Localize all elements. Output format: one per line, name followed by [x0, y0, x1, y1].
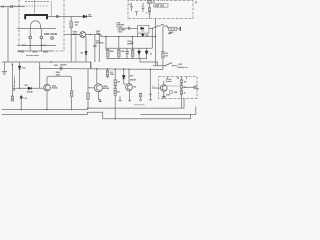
- bus stub x21: [20, 100, 22, 110]
- resistor R601 lead: [149, 3, 151, 7]
- connector circle: [56, 16, 58, 18]
- resistor R521: [107, 50, 110, 57]
- wire to pin: [183, 86, 194, 88]
- svg-text:2W: 2W: [165, 55, 168, 57]
- switch wire: [153, 65, 177, 67]
- transistor V502: [44, 84, 51, 91]
- anode wire: [34, 0, 36, 14]
- diode V506 stem: [123, 69, 125, 75]
- stub x120: [119, 96, 121, 100]
- thermistor S-mark: [161, 24, 167, 26]
- svg-text:1N4148: 1N4148: [27, 90, 33, 93]
- CRT face dashed line A: [25, 1, 50, 3]
- svg-text:4-10: 4-10: [23, 97, 26, 100]
- riser R522: [118, 37, 120, 50]
- diode V509: [83, 15, 86, 18]
- electron gun dome: [31, 21, 41, 29]
- resistor R582: [180, 85, 182, 89]
- svg-text:F8N: F8N: [174, 92, 178, 94]
- main base wire: [65, 34, 80, 36]
- svg-text:C6: C6: [129, 4, 131, 6]
- R508 leads: [87, 69, 89, 108]
- svg-text:403: 403: [22, 67, 25, 70]
- wire after diode: [86, 16, 92, 18]
- svg-text:V51: V51: [80, 52, 83, 54]
- resistor R504 stub: [107, 69, 109, 71]
- wire vertical left: [7, 7, 9, 62]
- plug P1: [10, 6, 13, 8]
- wire pot to base: [13, 87, 44, 89]
- fuse F601: [169, 27, 177, 30]
- transistor V507: [126, 84, 133, 91]
- wire pin2 to bus: [40, 39, 42, 51]
- svg-text:AT: AT: [152, 1, 155, 4]
- diode V512 stem: [142, 32, 144, 35]
- vert x90: [90, 62, 92, 69]
- svg-text:2: 2: [146, 13, 148, 15]
- cap C601: [130, 3, 133, 11]
- wire to stack: [167, 85, 180, 87]
- top rail: [106, 47, 152, 49]
- coupler diode: [141, 27, 144, 30]
- bus stub x47 junction: [46, 109, 47, 110]
- coupler curve mark: [142, 30, 145, 33]
- long vertical x155.5: [155, 19, 157, 66]
- vert x96 to V503: [96, 69, 98, 84]
- long vertical x163 R531 lead: [162, 26, 164, 51]
- adjust arrow: [11, 65, 13, 96]
- transistor V503: [94, 84, 102, 92]
- CRT base line: [17, 28, 56, 30]
- resistor R508: [87, 93, 90, 99]
- pin x140: [140, 93, 142, 100]
- capacitor C520: [126, 52, 129, 59]
- emitter down: [129, 91, 131, 101]
- svg-text:V50: V50: [133, 86, 136, 88]
- junction: [50, 61, 51, 62]
- pin x150 riser: [149, 70, 151, 95]
- svg-text:P501: P501: [19, 51, 25, 54]
- diode V505 stem: [19, 62, 21, 66]
- svg-text:4k7: 4k7: [117, 91, 120, 94]
- diode V520: [138, 48, 141, 58]
- diode V521: [145, 48, 148, 58]
- resistor R504: [106, 70, 109, 76]
- svg-text:458: 458: [119, 31, 122, 34]
- part number box: [154, 4, 168, 7]
- riser V507: [128, 69, 130, 84]
- CRT pin 1 stub: [29, 29, 31, 36]
- terminal tick: [179, 27, 181, 31]
- diode V505: [18, 66, 21, 69]
- resistor R523: [131, 50, 134, 57]
- resistor R507: [70, 91, 73, 97]
- box stem left: [137, 33, 139, 37]
- svg-text:2: 2: [153, 86, 154, 88]
- bus line 3: [141, 106, 196, 114]
- CRT face dashed line B: [14, 5, 48, 7]
- junction: [155, 36, 156, 37]
- svg-text:4.5V: 4.5V: [130, 74, 134, 77]
- CRT-PCB border bottom (dash-dot): [52, 50, 64, 52]
- resistor R501 lead2: [70, 28, 72, 62]
- bus line 2: [2, 112, 191, 119]
- stack line x115: [114, 69, 116, 119]
- R507 lead: [71, 97, 73, 110]
- circled 3: [50, 36, 54, 40]
- CRT bulb left edge (dash-dot): [18, 0, 20, 45]
- junction: [30, 45, 31, 46]
- resistor R501 lead: [70, 17, 72, 22]
- svg-text:12V: 12V: [196, 88, 200, 90]
- resistor R601: [148, 8, 150, 12]
- svg-text:Stability test: Stability test: [177, 66, 187, 69]
- wire right seg: [140, 59, 158, 66]
- svg-text:2: 2: [196, 85, 197, 87]
- R531 lead2: [162, 58, 164, 70]
- blob: [98, 100, 100, 102]
- cap C604: [148, 11, 150, 18]
- junction: [19, 88, 20, 89]
- svg-text:C507: C507: [24, 85, 28, 87]
- pin x150: [149, 94, 151, 100]
- CRT pin 2 stub: [40, 29, 42, 36]
- transistor V583: [161, 85, 168, 92]
- wire top-left horizontal: [0, 6, 25, 8]
- mains wire: [118, 27, 128, 29]
- connector X-box: [147, 1, 151, 4]
- bus line 1: [2, 99, 184, 110]
- junction x115: [115, 118, 116, 119]
- svg-text:1k5: 1k5: [75, 24, 78, 26]
- junction x88: [87, 108, 88, 109]
- cap C602: [135, 12, 138, 16]
- svg-text:HOT: HOT: [179, 64, 184, 66]
- capacitor C510: [93, 45, 96, 46]
- riser R523: [132, 37, 134, 50]
- svg-text:10k: 10k: [117, 82, 120, 84]
- wire mains to coupler: [130, 27, 153, 29]
- cap wire x95: [94, 35, 96, 46]
- diode V504: [28, 87, 31, 90]
- resistor R510: [114, 88, 117, 95]
- svg-text:10k: 10k: [131, 43, 134, 45]
- diode V510: [85, 51, 87, 54]
- foot: [119, 100, 122, 102]
- heater wire: [17, 44, 56, 46]
- foot: [128, 100, 131, 102]
- cap C603: [142, 3, 145, 13]
- resistor R581: [180, 80, 182, 84]
- wire P501 row: [17, 50, 52, 52]
- wire base V503: [88, 87, 94, 89]
- svg-text:4.5V: 4.5V: [33, 50, 38, 53]
- emitter drop V501: [85, 37, 87, 62]
- collector loop V502: [47, 76, 72, 90]
- svg-text:680/2kV: 680/2kV: [60, 65, 67, 67]
- collector wire V501: [86, 35, 156, 37]
- wire W2: [40, 68, 163, 69]
- svg-text:BC548: BC548: [103, 87, 109, 90]
- svg-text:CHASSIS: CHASSIS: [116, 24, 125, 27]
- svg-text:BC546: BC546: [52, 87, 58, 90]
- svg-text:from line output: from line output: [26, 54, 39, 57]
- CRT pin 1: [29, 36, 32, 39]
- junction: [152, 28, 153, 29]
- CRT pin 2: [40, 36, 43, 39]
- base wire into box: [152, 87, 160, 89]
- svg-text:1k: 1k: [184, 92, 186, 94]
- junction: [41, 45, 42, 46]
- pin circle: [194, 86, 196, 88]
- pot resistor R511: [11, 96, 14, 101]
- emitter V503 down: [97, 92, 99, 100]
- svg-text:10k: 10k: [184, 82, 187, 84]
- resistor R531: [162, 52, 165, 58]
- resistor R509: [114, 80, 117, 86]
- cap C510 lead: [94, 47, 96, 62]
- svg-text:Option: Option: [166, 80, 172, 83]
- svg-text:146V: 146V: [43, 50, 49, 53]
- wire W1: [2, 62, 91, 68]
- deflection yoke (thick bracket): [25, 15, 47, 19]
- vertical x152: [151, 28, 153, 48]
- small seg: [134, 104, 145, 106]
- riser C520: [126, 48, 128, 51]
- diode V506: [122, 76, 125, 79]
- transistor V501: [80, 32, 86, 38]
- connector J1 marks: [2, 6, 4, 8]
- resistor R501: [70, 22, 73, 28]
- CRT bulb right edge: [51, 2, 53, 17]
- resistor R583: [180, 90, 182, 94]
- cap C505: [60, 66, 62, 70]
- ground in box: [163, 96, 164, 97]
- pin circle mid box: [169, 90, 172, 93]
- svg-text:100k: 100k: [121, 51, 125, 53]
- box top marks: [167, 77, 186, 80]
- svg-text:120k: 120k: [110, 74, 114, 76]
- vert x39: [39, 62, 41, 88]
- wire v x99: [98, 35, 100, 63]
- capacitor C605: [128, 27, 129, 30]
- svg-text:XQT 521: XQT 521: [155, 5, 165, 8]
- svg-text:220k: 220k: [110, 51, 114, 53]
- stack line: [180, 77, 182, 109]
- diode lead down: [19, 69, 21, 88]
- terminal mark top right: [195, 1, 197, 3]
- coupler box U511: [138, 25, 149, 33]
- CRT-PCB border right (dash-dot): [63, 0, 65, 51]
- svg-text:100n/50V: 100n/50V: [96, 42, 105, 44]
- diode lead: [124, 79, 126, 84]
- wire v x76: [75, 35, 77, 62]
- dashed box top-right border: [128, 1, 193, 19]
- emitter V502 down: [46, 91, 48, 110]
- video wire: [48, 16, 83, 18]
- svg-text:V583: V583: [166, 95, 170, 97]
- svg-text:(4B): (4B): [168, 32, 172, 35]
- switch blade: [165, 63, 172, 66]
- riser R521: [105, 37, 107, 50]
- Option box (dash-dot): [159, 77, 197, 99]
- collector/emitter: [163, 81, 165, 96]
- junction W1W2: [39, 68, 40, 69]
- junction: [99, 34, 100, 35]
- rail stubs: [106, 48, 133, 58]
- junction: [90, 34, 91, 35]
- diode V512: [141, 34, 144, 36]
- svg-text:45: 45: [150, 52, 152, 55]
- svg-text:C505: C505: [54, 65, 58, 67]
- resistor R522: [118, 50, 121, 57]
- bottom rail: [106, 58, 147, 60]
- wire pin1 to bus: [29, 39, 31, 51]
- wire to fuse: [152, 25, 168, 28]
- wire to terminal: [177, 28, 180, 30]
- svg-text:1N4148: 1N4148: [130, 79, 136, 82]
- diode V508: [20, 97, 23, 100]
- ground left: [2, 62, 7, 74]
